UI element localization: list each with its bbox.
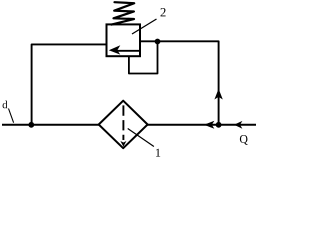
wire valve right port to top-right corner and down (140, 41, 219, 125)
junction node right (216, 122, 222, 128)
wire left branch up to valve left port (32, 44, 108, 124)
relief valve 2 internal flow arrow (117, 50, 141, 52)
label 1 (156, 149, 160, 157)
label d (3, 101, 8, 109)
flow arrow incoming from Q (234, 121, 242, 129)
wire pilot line loop under valve (129, 42, 158, 73)
label Q (240, 135, 248, 145)
filter diamond 1 (99, 101, 148, 149)
flow arrow up on right branch (214, 89, 222, 100)
leader line for label 1 (128, 129, 154, 147)
relief valve 2 body (107, 24, 141, 56)
filter element dashed line (122, 105, 124, 140)
label 2 (161, 8, 166, 16)
junction node left (28, 122, 34, 128)
relief valve 2 spring (112, 2, 135, 24)
filter dashed line down arrowhead (120, 141, 126, 147)
flow arrow left of right junction (204, 121, 214, 129)
leader line for label d (9, 109, 14, 123)
wire main bottom line d-Q (2, 124, 256, 126)
leader line for label 2 (132, 19, 157, 34)
junction node pilot top (155, 39, 161, 45)
